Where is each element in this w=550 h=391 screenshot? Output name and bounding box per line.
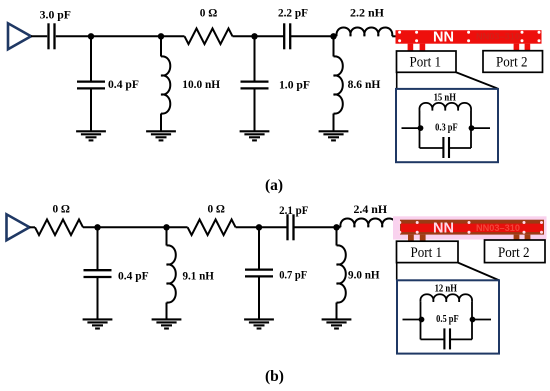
svg-text:2.2 pF: 2.2 pF bbox=[278, 6, 308, 20]
svg-text:2.2 nH: 2.2 nH bbox=[350, 5, 385, 19]
svg-text:1.0 pF: 1.0 pF bbox=[279, 77, 310, 91]
svg-text:2.1 pF: 2.1 pF bbox=[279, 203, 308, 217]
svg-text:9.0 nH: 9.0 nH bbox=[348, 268, 380, 282]
svg-text:0.4 pF: 0.4 pF bbox=[108, 77, 139, 91]
svg-text:Port 2: Port 2 bbox=[496, 54, 528, 70]
svg-text:12 nH: 12 nH bbox=[435, 284, 458, 295]
svg-text:2.4 nH: 2.4 nH bbox=[353, 202, 387, 216]
svg-text:0.3 pF: 0.3 pF bbox=[435, 123, 458, 134]
svg-text:(a): (a) bbox=[265, 177, 283, 194]
svg-text:3.0 pF: 3.0 pF bbox=[40, 8, 71, 22]
svg-text:Port 1: Port 1 bbox=[410, 54, 442, 70]
svg-text:NN03–310: NN03–310 bbox=[476, 32, 520, 43]
svg-text:NN03–310: NN03–310 bbox=[476, 223, 520, 234]
svg-text:(b): (b) bbox=[265, 368, 284, 385]
svg-text:NN: NN bbox=[433, 220, 454, 236]
svg-text:0 Ω: 0 Ω bbox=[200, 5, 218, 19]
svg-text:9.1 nH: 9.1 nH bbox=[182, 269, 214, 283]
svg-text:8.6 nH: 8.6 nH bbox=[348, 77, 381, 91]
svg-text:0.4 pF: 0.4 pF bbox=[118, 269, 149, 283]
svg-text:NN: NN bbox=[433, 29, 454, 45]
svg-text:0.7 pF: 0.7 pF bbox=[279, 268, 307, 282]
svg-text:Port 2: Port 2 bbox=[498, 245, 530, 261]
svg-text:0.5 pF: 0.5 pF bbox=[436, 314, 459, 325]
svg-text:10.0 nH: 10.0 nH bbox=[182, 77, 220, 91]
svg-text:15 nH: 15 nH bbox=[434, 92, 457, 103]
svg-text:0 Ω: 0 Ω bbox=[52, 201, 70, 215]
svg-text:0 Ω: 0 Ω bbox=[207, 202, 225, 216]
svg-text:Port 1: Port 1 bbox=[411, 245, 443, 261]
